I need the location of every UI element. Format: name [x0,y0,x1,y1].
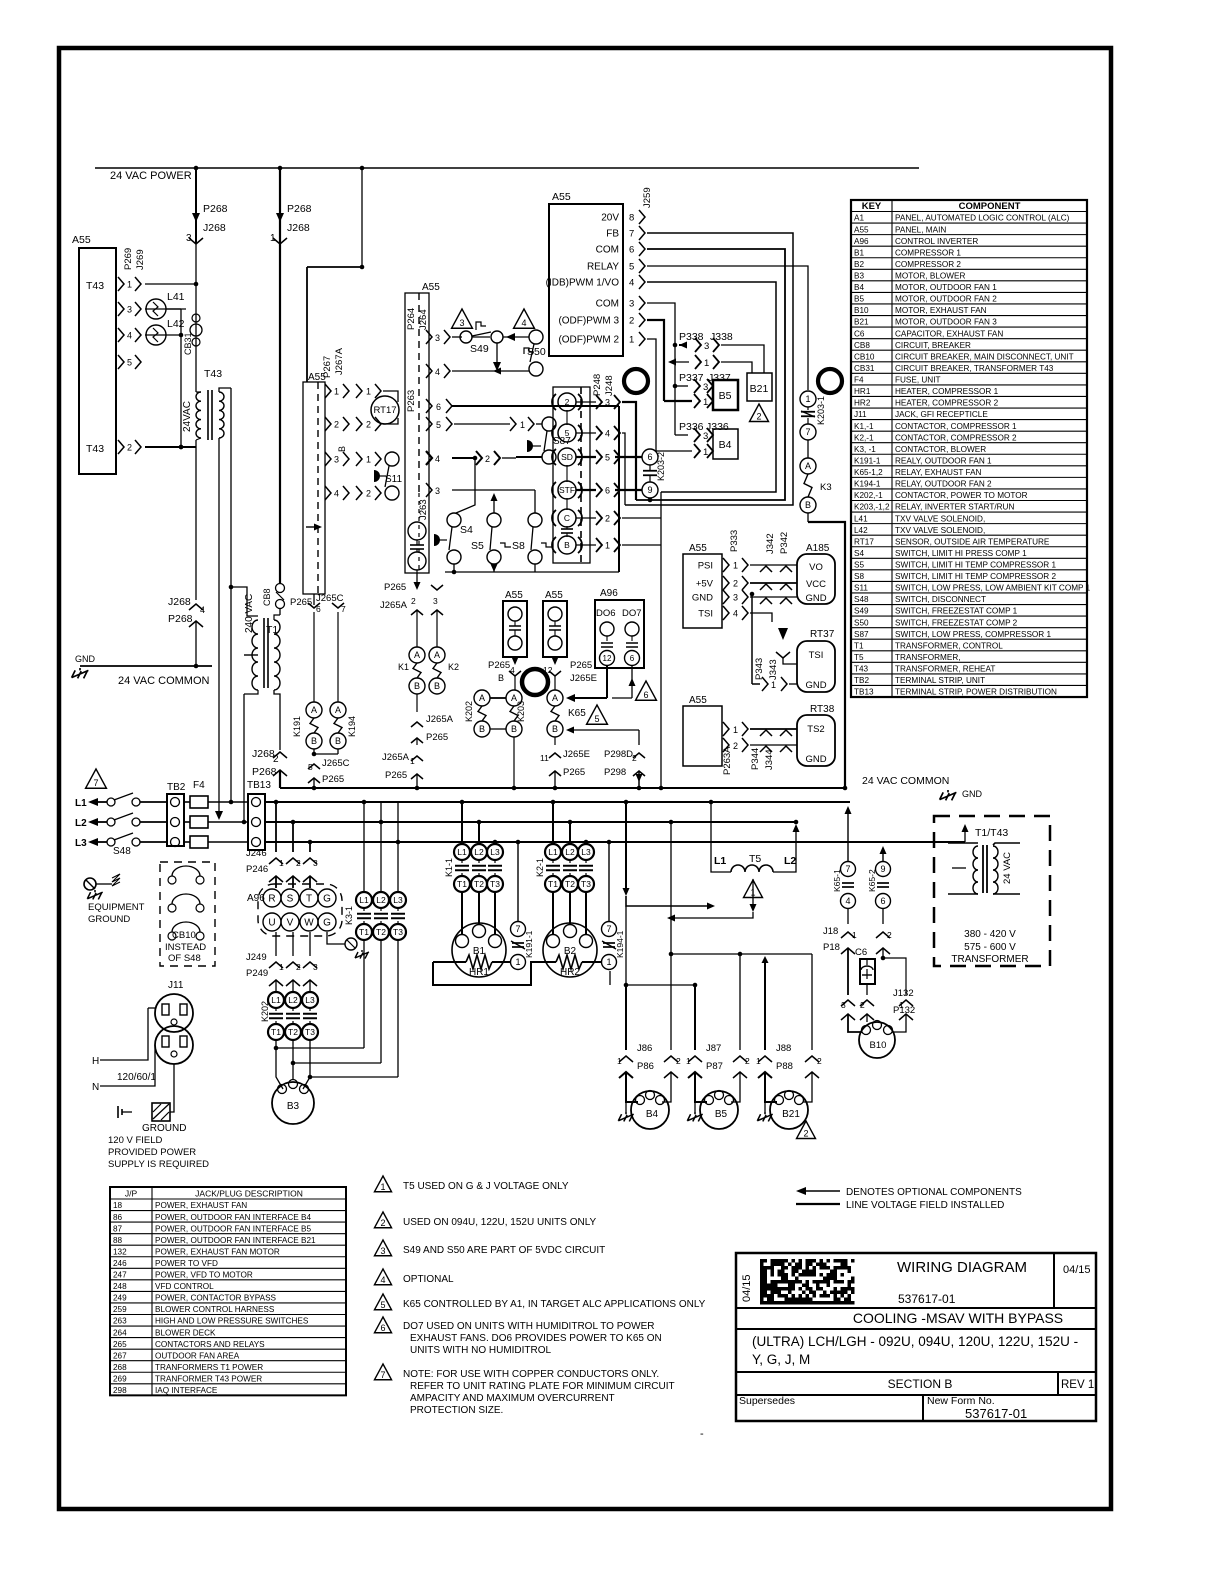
svg-text:5: 5 [594,714,599,724]
svg-text:P336: P336 [679,421,704,433]
svg-text:2: 2 [676,1056,681,1066]
svg-text:P344: P344 [750,748,761,770]
svg-text:B: B [335,736,341,746]
wire L1 drop to J86 area [625,802,627,890]
note 7 [374,1364,391,1380]
svg-text:CONTACTOR, COMPRESSOR 1: CONTACTOR, COMPRESSOR 1 [895,422,1017,431]
svg-text:P87: P87 [706,1061,723,1072]
svg-text:A: A [311,705,317,715]
svg-text:T1: T1 [854,641,864,650]
svg-text:J248: J248 [604,375,615,396]
svg-text:K2,-1: K2,-1 [854,433,874,442]
svg-text:L1: L1 [548,847,558,857]
svg-text:GND: GND [962,789,983,799]
svg-text:T1: T1 [271,1027,281,1037]
svg-text:(ODF)PWM 3: (ODF)PWM 3 [558,316,619,327]
svg-text:K194-1: K194-1 [615,930,625,958]
svg-text:4: 4 [127,331,132,341]
svg-text:COMPRESSOR 2: COMPRESSOR 2 [895,260,961,269]
svg-text:2: 2 [485,454,490,464]
svg-text:RT17: RT17 [854,537,874,546]
svg-text:K2: K2 [448,662,459,672]
svg-text:1: 1 [756,1056,761,1066]
svg-text:CIRCUIT, BREAKER: CIRCUIT, BREAKER [895,341,971,350]
svg-text:SECTION B: SECTION B [888,1377,953,1391]
svg-text:INSTEAD: INSTEAD [165,942,206,953]
svg-text:T1: T1 [548,879,558,889]
svg-text:2: 2 [273,754,279,765]
svg-text:2: 2 [860,1000,865,1010]
svg-text:COOLING -MSAV WITH BYPASS: COOLING -MSAV WITH BYPASS [853,1310,1063,1326]
svg-text:P265: P265 [322,774,344,785]
svg-text:S4: S4 [460,524,473,536]
connector J265E/P265 pin 11 [554,737,556,745]
svg-text:P337: P337 [679,372,704,384]
svg-text:T43: T43 [86,443,104,455]
svg-text:6: 6 [880,896,885,906]
solenoid L42 [145,334,181,336]
svg-text:MOTOR, BLOWER: MOTOR, BLOWER [895,272,965,281]
svg-text:L3: L3 [490,847,500,857]
svg-text:RT37: RT37 [810,629,835,640]
connector P268/J268 pin 3 [195,168,197,244]
svg-text:3: 3 [313,962,318,972]
svg-text:A55: A55 [552,191,571,203]
svg-text:VO: VO [809,562,823,573]
svg-text:SD: SD [561,452,573,462]
svg-text:S49: S49 [470,343,489,355]
svg-text:04/15: 04/15 [741,1274,753,1302]
svg-text:TB13: TB13 [247,780,271,791]
svg-text:TB13: TB13 [854,688,874,697]
svg-text:2: 2 [296,858,301,868]
svg-text:CB31: CB31 [854,364,875,373]
wire T5 secondary drops [744,872,752,906]
svg-text:GROUND: GROUND [88,914,130,925]
wire J259 pin4 run [647,282,776,492]
svg-text:K202: K202 [464,701,474,722]
wire J259 pin6 run [636,249,785,500]
svg-text:A55: A55 [422,282,440,293]
relay contact K203-1 [800,391,816,407]
wire S49-S50 link [472,336,490,338]
svg-text:POWER, VFD TO MOTOR: POWER, VFD TO MOTOR [155,1271,253,1280]
svg-text:L41: L41 [854,514,868,523]
svg-text:J87: J87 [706,1043,721,1054]
svg-text:L2: L2 [376,895,386,905]
svg-text:A: A [552,693,558,703]
motor B21 [764,1072,766,1095]
svg-text:1: 1 [629,335,634,346]
connector J268/P268 pin 4 [195,447,197,600]
wire pin1 to CB31 node [145,283,196,285]
svg-text:RELAY, OUTDOOR FAN 2: RELAY, OUTDOOR FAN 2 [895,480,992,489]
note triangle 7 [86,769,107,788]
svg-text:CONTROL INVERTER: CONTROL INVERTER [895,237,978,246]
svg-text:6: 6 [643,690,648,700]
svg-text:K203-1: K203-1 [816,396,826,425]
svg-text:P265: P265 [384,582,406,593]
svg-text:J18: J18 [823,926,838,937]
svg-text:L2: L2 [565,847,575,857]
svg-text:TSI: TSI [809,650,824,661]
svg-text:CB31: CB31 [183,332,193,355]
svg-text:CONTACTOR, POWER TO MOTOR: CONTACTOR, POWER TO MOTOR [895,491,1028,500]
svg-text:K65: K65 [568,708,586,719]
relay contact K191-1 [517,842,519,921]
svg-text:V: V [287,918,294,929]
svg-text:P265: P265 [488,660,510,671]
svg-text:P263: P263 [406,390,417,412]
svg-text:HEATER, COMPRESSOR 1: HEATER, COMPRESSOR 1 [895,387,999,396]
wire GND pin3 drop [750,592,755,597]
svg-text:K65 CONTROLLED BY A1, IN TARGE: K65 CONTROLLED BY A1, IN TARGET ALC APPL… [403,1299,706,1310]
svg-text:L41: L41 [167,291,185,303]
svg-text:2: 2 [565,397,570,407]
svg-text:4: 4 [521,318,526,328]
switch S48 disconnect [107,798,115,806]
svg-text:L42: L42 [854,526,868,535]
svg-text:P265: P265 [570,660,592,671]
svg-text:259: 259 [113,1305,127,1314]
svg-text:FB: FB [606,229,619,240]
svg-text:CONTACTOR, BLOWER: CONTACTOR, BLOWER [895,445,986,454]
svg-text:2: 2 [411,596,416,606]
solenoid L41 [145,308,186,310]
svg-text:S5: S5 [854,561,864,570]
svg-text:4: 4 [200,605,205,615]
svg-text:B10: B10 [870,1040,887,1051]
svg-text:J268: J268 [203,222,226,234]
svg-text:3: 3 [334,455,339,465]
svg-text:J265E: J265E [563,749,590,760]
svg-text:HR1: HR1 [469,967,489,978]
svg-text:F4: F4 [854,376,864,385]
svg-text:J246: J246 [246,848,267,859]
svg-text:5: 5 [605,453,610,463]
wire J259 pin7 run [625,233,793,505]
svg-text:B10: B10 [854,306,869,315]
svg-text:SWITCH, FREEZESTAT COMP 2: SWITCH, FREEZESTAT COMP 2 [895,618,1018,627]
svg-text:B4: B4 [719,439,732,451]
svg-text:LINE VOLTAGE FIELD INSTALLED: LINE VOLTAGE FIELD INSTALLED [846,1200,1004,1211]
svg-text:2: 2 [127,443,132,453]
svg-text:268: 268 [113,1363,127,1372]
svg-text:9: 9 [880,864,885,874]
svg-text:K2-1: K2-1 [535,858,545,877]
svg-text:2: 2 [366,489,371,499]
note triangle 5 [587,705,608,724]
svg-text:JACK, GFI RECEPTICLE: JACK, GFI RECEPTICLE [895,410,988,419]
wire K202 to bus [513,737,515,788]
svg-text:A96: A96 [600,588,618,599]
svg-text:1: 1 [410,756,415,766]
svg-text:J86: J86 [637,1043,652,1054]
wire K194-1 to L3 [609,971,611,985]
note 1 [374,1176,391,1192]
relay contact K203-2 [642,449,658,465]
svg-text:B1: B1 [473,946,486,957]
wire P248-1 row [622,544,661,546]
svg-text:COM: COM [596,299,619,310]
svg-text:4: 4 [845,896,850,906]
svg-text:PSI: PSI [698,561,713,572]
svg-text:A185: A185 [806,543,830,554]
svg-text:P132: P132 [893,1005,915,1016]
svg-text:1: 1 [805,394,810,404]
svg-text:C6: C6 [854,329,865,338]
svg-text:3: 3 [841,1000,846,1010]
wire COM return vertical [660,492,662,788]
svg-text:86: 86 [113,1213,123,1222]
svg-text:P249: P249 [246,968,268,979]
svg-text:C: C [564,513,570,523]
motor B3 blower [276,1040,283,1089]
svg-text:COMPRESSOR 1: COMPRESSOR 1 [895,248,961,257]
ground right [940,790,957,800]
wire L2 bus [265,821,798,823]
svg-text:K1-1: K1-1 [444,858,454,877]
svg-text:4: 4 [629,278,634,289]
svg-text:P343: P343 [754,658,765,680]
svg-text:W: W [304,918,314,929]
svg-text:J338: J338 [710,331,733,343]
svg-text:5: 5 [380,1300,385,1310]
svg-text:B3: B3 [854,272,864,281]
svg-text:N: N [92,1082,99,1093]
wire A96 to K65 [606,666,608,698]
svg-text:2: 2 [756,412,761,422]
switch S50 freezestat [514,309,535,328]
svg-text:U: U [268,918,275,929]
svg-text:EQUIPMENT: EQUIPMENT [88,902,145,913]
svg-text:B5: B5 [719,390,732,402]
svg-text:S49: S49 [854,607,869,616]
svg-text:1: 1 [606,957,611,967]
svg-text:T43: T43 [204,368,222,380]
svg-text:6: 6 [647,452,652,462]
wire T43 secondary to L1 [230,388,232,587]
svg-text:CONTACTORS AND RELAYS: CONTACTORS AND RELAYS [155,1340,265,1349]
svg-text:4: 4 [380,1275,385,1285]
svg-text:1: 1 [515,957,520,967]
svg-text:J132: J132 [893,988,914,999]
svg-text:B: B [564,540,570,550]
connector J265A/P265 pin 1 [411,756,423,761]
relay K65 coil [554,689,556,691]
svg-text:CB8: CB8 [854,341,870,350]
svg-text:7: 7 [629,229,634,240]
svg-text:L3: L3 [581,847,591,857]
svg-text:6: 6 [380,1323,385,1333]
svg-text:6: 6 [605,486,610,496]
svg-text:P268: P268 [252,766,277,778]
svg-text:T43: T43 [854,665,869,674]
transformer box T1/T43 [934,816,1050,966]
svg-text:11: 11 [540,753,549,763]
svg-text:3: 3 [459,318,464,328]
connector P265 pin 4/B [512,657,519,665]
svg-text:K1,-1: K1,-1 [854,422,874,431]
svg-text:S5: S5 [471,540,484,552]
svg-text:GND: GND [805,680,826,691]
svg-text:K203,-1,2: K203,-1,2 [854,503,890,512]
svg-text:MOTOR, OUTDOOR FAN 1: MOTOR, OUTDOOR FAN 1 [895,283,997,292]
svg-text:B21: B21 [782,1109,800,1120]
legend line voltage [796,1203,840,1205]
svg-text:Y, G, J, M: Y, G, J, M [752,1352,810,1367]
svg-text:B1: B1 [854,248,864,257]
svg-text:TRANSFORMER, CONTROL: TRANSFORMER, CONTROL [895,641,1003,650]
contactor K3-1 poles [356,892,372,908]
svg-text:8: 8 [629,213,634,224]
svg-text:7: 7 [93,778,98,788]
svg-text:T1: T1 [359,927,369,937]
connector P265/J265E pin 12 [552,657,559,665]
wire TSI pin4 run [750,613,772,622]
svg-text:K191-1: K191-1 [854,456,881,465]
svg-text:537617-01: 537617-01 [898,1292,956,1306]
wire J259 pin2 run [647,320,664,401]
wire 24VAC common [80,665,212,667]
svg-text:J265A: J265A [380,600,408,611]
svg-text:4: 4 [435,367,440,377]
svg-text:VFD CONTROL: VFD CONTROL [155,1282,214,1291]
svg-text:G: G [323,918,331,929]
svg-text:MOTOR, OUTDOOR FAN 2: MOTOR, OUTDOOR FAN 2 [895,295,997,304]
svg-text:KEY: KEY [862,201,882,212]
relay K202 coil [474,690,490,706]
note 4 [374,1269,391,1285]
svg-text:RT38: RT38 [810,704,835,715]
wire K3-1 T-side drops [363,940,365,1048]
svg-text:P269: P269 [123,248,134,270]
note triangle 6 [636,681,657,700]
svg-text:STF: STF [559,485,575,495]
svg-text:7: 7 [380,1370,385,1380]
svg-text:2: 2 [296,962,301,972]
svg-text:3: 3 [629,299,634,310]
svg-text:L2: L2 [288,995,298,1005]
wire L3 bus [265,841,965,843]
svg-text:L1: L1 [271,995,281,1005]
svg-text:B4: B4 [646,1109,659,1120]
note triangle 1 under T5 [744,880,763,898]
motor B4 [625,1072,627,1095]
svg-text:B: B [337,446,347,452]
svg-text:K203: K203 [516,701,526,722]
svg-text:S50: S50 [854,618,869,627]
relay contact K65-1 [845,806,852,814]
svg-text:BLOWER DECK: BLOWER DECK [155,1328,216,1337]
svg-text:TRANFORMERS T1 POWER: TRANFORMERS T1 POWER [155,1363,263,1372]
svg-text:K65-1,2: K65-1,2 [854,468,883,477]
connector J265A/P265 mid [416,694,418,712]
svg-text:2: 2 [632,753,637,763]
svg-text:P268: P268 [287,203,312,215]
svg-text:04/15: 04/15 [1063,1264,1091,1276]
svg-text:OPTIONAL: OPTIONAL [403,1274,454,1285]
svg-text:K191-1: K191-1 [524,930,534,958]
svg-text:HIGH AND LOW PRESSURE SWITCHES: HIGH AND LOW PRESSURE SWITCHES [155,1317,309,1326]
svg-text:OUTDOOR FAN AREA: OUTDOOR FAN AREA [155,1351,240,1360]
svg-text:T43: T43 [86,280,104,292]
svg-text:TERMINAL STRIP, UNIT: TERMINAL STRIP, UNIT [895,676,985,685]
svg-text:6: 6 [629,245,634,256]
svg-text:S11: S11 [385,474,402,485]
svg-text:Supersedes: Supersedes [739,1395,795,1407]
svg-text:SWITCH, LIMIT HI TEMP COMPRESS: SWITCH, LIMIT HI TEMP COMPRESSOR 2 [895,572,1056,581]
svg-text:1: 1 [733,561,738,571]
svg-text:DENOTES OPTIONAL COMPONENTS: DENOTES OPTIONAL COMPONENTS [846,1187,1022,1198]
svg-text:3: 3 [605,398,610,408]
svg-text:K194-1: K194-1 [854,480,881,489]
svg-text:RELAY, INVERTER START/RUN: RELAY, INVERTER START/RUN [895,503,1014,512]
svg-text:380 - 420 V: 380 - 420 V [964,929,1016,940]
svg-text:1: 1 [334,387,339,397]
svg-text:1: 1 [605,541,610,551]
svg-text:6: 6 [316,604,321,614]
compressor B2 + heater HR2 [543,923,597,977]
svg-text:2: 2 [733,579,738,589]
svg-text:JACK/PLUG DESCRIPTION: JACK/PLUG DESCRIPTION [195,1189,303,1199]
svg-text:WIRING DIAGRAM: WIRING DIAGRAM [897,1259,1027,1276]
svg-text:B: B [311,736,317,746]
svg-text:264: 264 [113,1328,127,1337]
svg-text:263: 263 [113,1317,127,1326]
svg-text:TB2: TB2 [854,676,869,685]
svg-text:TRANFORMER T43 POWER: TRANFORMER T43 POWER [155,1374,262,1383]
wire T1 secondary down [274,690,280,750]
svg-text:B: B [498,673,504,683]
svg-text:SENSOR, OUTSIDE AIR TEMPERATUR: SENSOR, OUTSIDE AIR TEMPERATURE [895,537,1050,546]
svg-text:SWITCH, LOW PRESS, COMPRESSOR: SWITCH, LOW PRESS, COMPRESSOR 1 [895,630,1051,639]
svg-text:6: 6 [630,654,635,663]
svg-text:TXV VALVE SOLENOID,: TXV VALVE SOLENOID, [895,514,985,523]
svg-text:267: 267 [113,1351,127,1360]
svg-text:T5 USED ON G & J VOLTAGE ONLY: T5 USED ON G & J VOLTAGE ONLY [403,1181,569,1192]
circuit breaker CB31 [195,284,197,382]
wire P298 to K65 B [570,729,639,731]
svg-text:12: 12 [603,654,612,663]
relay contact K194-1 right [608,842,610,921]
svg-text:CIRCUIT BREAKER, TRANSFORMER T: CIRCUIT BREAKER, TRANSFORMER T43 [895,364,1054,373]
svg-text:S48: S48 [113,846,131,857]
svg-text:B: B [805,500,811,510]
svg-text:575 - 600 V: 575 - 600 V [964,942,1016,953]
svg-text:248: 248 [113,1282,127,1291]
svg-text:PANEL, MAIN: PANEL, MAIN [895,225,946,234]
svg-text:S8: S8 [854,572,864,581]
wire switch commons [445,571,619,573]
svg-text:4: 4 [510,665,515,675]
svg-text:RELAY: RELAY [587,262,619,273]
svg-text:24 VAC COMMON: 24 VAC COMMON [862,775,949,787]
svg-text:P298D: P298D [604,749,633,760]
svg-text:A96: A96 [854,237,869,246]
svg-text:P338: P338 [679,331,704,343]
note 3 [374,1240,391,1256]
wire 24VAC power bus [95,167,919,169]
svg-text:1: 1 [686,1056,691,1066]
svg-text:P267: P267 [322,356,333,378]
circuit breaker CB8 [279,560,281,583]
motor B21 interface [747,373,772,401]
svg-text:T3: T3 [305,1027,315,1037]
wire J259 pin3 run [647,303,675,435]
svg-text:BLOWER CONTROL HARNESS: BLOWER CONTROL HARNESS [155,1305,275,1314]
svg-text:J259: J259 [642,187,653,208]
